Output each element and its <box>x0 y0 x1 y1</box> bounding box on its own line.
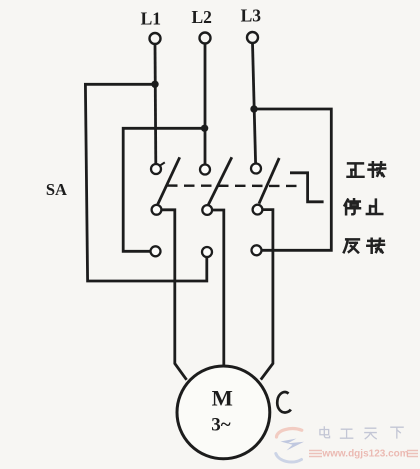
wire motor phase W from middle contact 3 <box>261 210 273 380</box>
svg-text:3~: 3~ <box>211 415 231 436</box>
wire L2 branch to bottom contact 1 <box>123 128 204 251</box>
wire L3 branch to bottom contact 3 <box>254 109 331 250</box>
wire L2 feed <box>204 44 207 165</box>
contact top 1 <box>151 162 165 174</box>
contact top 3 <box>251 164 261 174</box>
contact top 2 <box>200 165 210 175</box>
switch blade 1 <box>158 157 180 204</box>
contact middle 1 <box>152 205 162 215</box>
svg-text:L3: L3 <box>241 6 262 26</box>
svg-text:L2: L2 <box>191 7 211 27</box>
watermark url <box>309 449 418 460</box>
handle symbol <box>290 173 324 202</box>
node junction J3 on L3 <box>250 105 257 112</box>
svg-text:L1: L1 <box>141 9 161 29</box>
wire L1 branch to bottom contact 2 <box>85 84 206 281</box>
watermark text dian gong tian xia <box>320 427 403 439</box>
motor M1 <box>177 366 270 459</box>
node junction J2 on L2 <box>201 125 208 132</box>
svg-text:www.dgjs123.com: www.dgjs123.com <box>321 449 408 460</box>
wire L1 feed <box>154 44 158 164</box>
contact bottom 1 <box>151 246 161 256</box>
contact bottom 2 <box>202 247 212 257</box>
label forward (zheng zhuan) <box>348 162 386 177</box>
node junction J1 on L1 <box>151 81 158 88</box>
contact middle 3 <box>253 205 263 215</box>
annotation C mark <box>277 392 291 412</box>
label reverse (fan zhuan) <box>344 238 384 253</box>
svg-text:SA: SA <box>46 180 67 199</box>
contact bottom 3 <box>252 245 262 255</box>
wire L3 feed <box>253 43 256 163</box>
switch blade 2 <box>208 157 232 205</box>
watermark logo dgjs <box>276 429 304 462</box>
label stop (ting zhi) <box>345 199 383 215</box>
terminal L3 <box>241 6 262 44</box>
svg-text:M: M <box>212 386 233 411</box>
terminal L2 <box>191 7 211 44</box>
wire motor phase U from middle contact 1 <box>161 210 186 380</box>
switch blade 3 <box>259 158 279 204</box>
contact middle 2 <box>202 205 212 215</box>
wire motor phase V from middle contact 2 <box>212 210 224 366</box>
mechanical linkage dashed line <box>167 184 303 187</box>
terminal L1 <box>141 9 161 45</box>
